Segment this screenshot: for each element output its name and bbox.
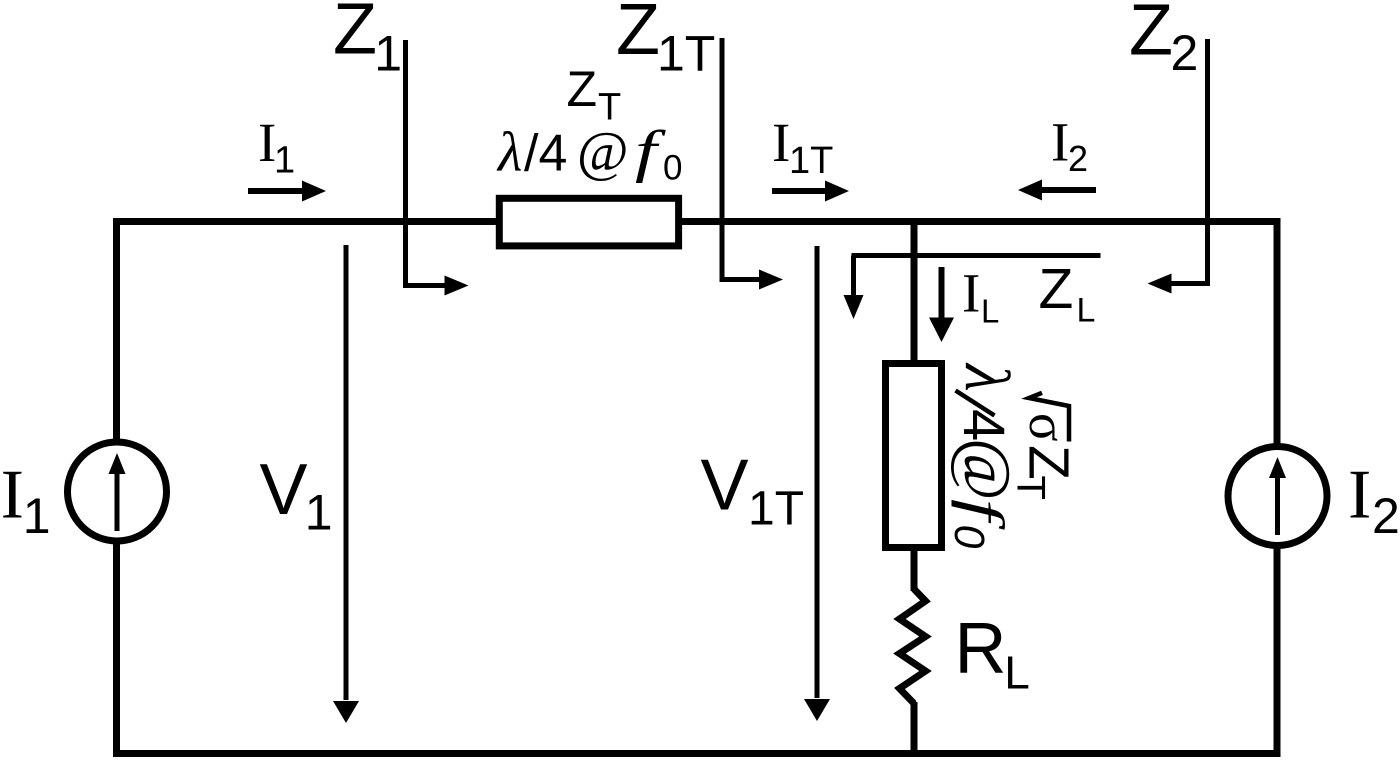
voltage arrow V1T: [815, 246, 820, 698]
current arrow I1T: [772, 188, 827, 194]
svg-text:L: L: [981, 293, 999, 330]
svg-text:1T: 1T: [789, 140, 833, 182]
svg-text:I: I: [1051, 112, 1069, 173]
svg-text:L: L: [1077, 292, 1096, 330]
svg-text:I: I: [962, 263, 980, 324]
wire top left segment: [113, 218, 496, 225]
svg-text:Z: Z: [616, 0, 660, 70]
svg-text:λ: λ: [496, 122, 522, 184]
wire right vertical: [1274, 218, 1281, 757]
svg-text:2: 2: [1068, 138, 1088, 179]
svg-text:L: L: [1004, 647, 1030, 699]
svg-text:0: 0: [663, 149, 682, 188]
transmission line sqrt(sigma)ZT (vertical box): [886, 364, 942, 548]
transmission line ZT (horizontal box): [499, 198, 678, 246]
line 1: sqrt sigma Z T (rotated): [1029, 393, 1069, 442]
svg-text:I: I: [1, 457, 24, 534]
wire left vertical: [113, 218, 120, 757]
svg-text:I: I: [772, 112, 790, 173]
svg-text:1: 1: [305, 485, 333, 541]
svg-text:1: 1: [23, 488, 51, 544]
svg-text:2: 2: [1372, 488, 1400, 544]
svg-text:I: I: [1348, 457, 1371, 534]
svg-text:V: V: [701, 446, 749, 526]
wire load branch between box and resistor: [911, 548, 918, 591]
svg-text:4: 4: [951, 409, 1016, 441]
svg-text:/4: /4: [524, 125, 567, 183]
svg-text:@: @: [577, 122, 629, 184]
svg-text:@: @: [949, 438, 1025, 501]
svg-text:Z: Z: [1039, 257, 1074, 321]
svg-text:1T: 1T: [748, 483, 804, 536]
current source I2 arrow: [1275, 474, 1280, 535]
svg-text:σ: σ: [1018, 413, 1076, 442]
svg-text:Z: Z: [567, 61, 598, 117]
svg-text:Z: Z: [1129, 0, 1173, 71]
current arrow IL: [939, 267, 945, 318]
impedance indicator Z1: [406, 40, 448, 286]
current arrow I1: [248, 188, 305, 194]
label sqrt(sigma)ZT lambda/4 @ f0 (rotated): [945, 362, 1081, 549]
voltage arrow V1: [344, 245, 349, 700]
impedance indicator ZL: [852, 253, 1101, 258]
svg-text:2: 2: [1171, 25, 1199, 81]
resistor RL zigzag: [900, 589, 926, 704]
current arrow I2: [1041, 187, 1096, 193]
wire bottom: [113, 750, 1281, 757]
svg-text:Z: Z: [333, 0, 377, 70]
svg-text:1T: 1T: [657, 26, 715, 82]
current source I1 arrow: [115, 470, 120, 531]
impedance indicator Z1T: [722, 38, 762, 280]
svg-text:1: 1: [274, 140, 295, 182]
svg-text:V: V: [260, 450, 308, 530]
wire top right segment: [682, 218, 1281, 225]
svg-text:R: R: [955, 609, 1007, 689]
impedance indicator Z2: [1168, 39, 1208, 284]
svg-text:0: 0: [945, 525, 993, 549]
svg-text:1: 1: [374, 26, 402, 82]
wire load branch lower: [911, 702, 918, 754]
current source I1 circle: [68, 442, 167, 541]
wire load branch upper: [911, 222, 918, 364]
svg-text:λ: λ: [952, 362, 1023, 392]
current source I2 circle: [1228, 447, 1327, 546]
